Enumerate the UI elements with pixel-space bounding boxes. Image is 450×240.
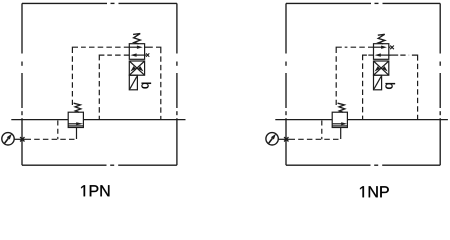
- blocked port mark x (1PN, bottom right of valve): [146, 53, 149, 56]
- relief valve RV2 spring: [338, 103, 345, 112]
- proportional valve V1 spring (top): [133, 34, 140, 44]
- test point mark (asterisk on boundary, 1NP): [284, 137, 288, 141]
- proportional valve V1 bottom arrow (flow path): [130, 53, 146, 56]
- pressure gauge G1 needle: [4, 134, 12, 144]
- wire: gauge pilot line (dashed horizontal, 1NP): [290, 138, 341, 140]
- relief valve RV2 body: [332, 112, 347, 127]
- wire: prop valve top port right stub (1NP): [389, 46, 391, 48]
- pressure gauge G2 needle: [268, 134, 276, 144]
- proportional valve V2 bottom arrow (flow path): [375, 53, 391, 56]
- wire: relief valve RV2 tank stub (down): [340, 127, 342, 139]
- proportional valve V2 crossed position box: [374, 61, 389, 75]
- manifold boundary 1PN top edge (chain line): [22, 2, 177, 4]
- wire: main pressure line P (1PN): [11, 119, 185, 121]
- manifold boundary 1PN left edge (chain line): [21, 3, 23, 165]
- relief valve RV1 internal flow arrow: [68, 122, 83, 126]
- proportional valve V1 solenoid box (hatched): [129, 75, 137, 90]
- wire: pilot line from prop valve top port to relief spring (dashed, 1NP): [345, 46, 374, 48]
- manifold boundary 1PN right edge (chain line): [176, 3, 178, 165]
- manifold boundary 1NP bottom edge (chain line): [286, 164, 440, 166]
- proportional valve V1 crossed position box: [129, 61, 144, 75]
- proportional valve V2 top arrow (flow path): [374, 46, 387, 49]
- relief valve RV1 spring: [74, 103, 81, 112]
- proportional valve V2 position box (arrows): [374, 44, 389, 60]
- proportional valve V1 top arrow (flow path): [129, 46, 142, 49]
- manifold boundary 1NP top edge (chain line): [286, 2, 440, 4]
- proportional valve V1 position box (arrows): [129, 44, 144, 60]
- manifold boundary 1NP right edge (chain line): [439, 3, 441, 165]
- pressure gauge G2: [266, 133, 278, 145]
- relief valve RV2 internal flow arrow: [332, 122, 347, 126]
- pressure gauge G1: [2, 133, 14, 145]
- proportional valve V2 crossed arrows: [374, 61, 389, 75]
- wire: gauge connection stub: [14, 138, 26, 140]
- relief valve RV1 body: [68, 112, 83, 127]
- wire: gauge pilot line (dashed horizontal): [26, 138, 77, 140]
- proportional valve V2 solenoid box (hatched): [374, 75, 382, 90]
- wire: prop valve bottom port to main line right side (dashed with solid stub, 1NP): [389, 54, 398, 56]
- wire: gauge tap from main line (dashed vertical): [57, 121, 59, 140]
- wire: main pressure line P (1NP): [275, 119, 448, 121]
- proportional valve V2 solenoid diagonal: [374, 76, 381, 88]
- label 1NP: [360, 186, 389, 197]
- wire: pilot line from prop valve bottom port to main line (dashed): [107, 54, 129, 56]
- wire: pilot line from prop valve bottom port to main line left side (dashed, 1NP): [368, 54, 373, 56]
- wire: gauge connection stub (1NP): [278, 138, 289, 140]
- solenoid label b (rotated, 1NP): [385, 83, 395, 89]
- wire: prop valve top port to main line right side (dashed with solid stub): [145, 46, 153, 48]
- wire: pilot line from prop valve top port to relief spring (dashed): [81, 46, 129, 48]
- wire: gauge tap from main line (dashed vertical, 1NP): [321, 121, 323, 140]
- proportional valve V1 crossed arrows: [129, 61, 144, 75]
- manifold boundary 1NP left edge (chain line): [285, 3, 287, 165]
- label 1PN: [81, 185, 109, 196]
- proportional valve V2 spring (top): [378, 34, 385, 44]
- manifold boundary 1PN bottom edge (chain line): [22, 164, 177, 166]
- blocked port mark x (1NP, top right of valve): [390, 46, 394, 50]
- proportional valve V1 solenoid diagonal: [130, 76, 137, 88]
- solenoid label b (rotated): [141, 83, 151, 89]
- wire: relief valve RV1 tank stub (down): [76, 127, 78, 139]
- test point mark (asterisk on boundary): [20, 137, 24, 141]
